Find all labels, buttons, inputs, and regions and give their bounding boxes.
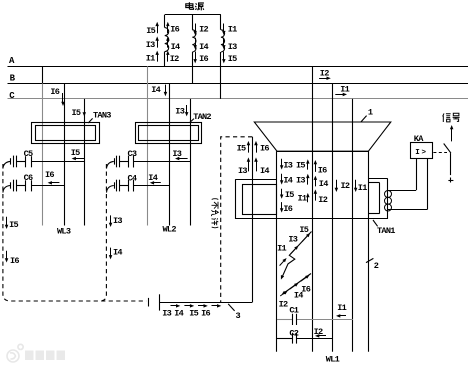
label XinHao (signal) char1 XIN [443,113,451,122]
svg-text:WL2: WL2 [163,224,177,234]
WL3 phase wire c (from bus C) [84,99,86,226]
svg-text:I6: I6 [201,309,210,319]
current arrow I6 down on WL3 wire b [62,93,64,103]
relay wire b (coil bottom to KA) [388,209,427,211]
circulating current arrows I3 I4 I5 I6 (right) [171,305,177,307]
tank col2 up arrows [307,163,309,170]
node 3 leader tick [228,304,234,311]
circulating wire from battery to point 3 [159,302,252,304]
svg-text:I2: I2 [279,300,288,310]
svg-text:TAN1: TAN1 [377,226,395,236]
zone arrow I3 down on WL2 dashed edge [110,215,112,223]
branch1 right current arrows up (I6 I4 I2) [167,25,169,33]
capacitor C1 wire (gray) [277,319,292,321]
dashed zone boundary WL3 (left edge + bottom) [3,164,146,301]
dashed actuation link from KA to contact [433,152,447,154]
svg-text:I2: I2 [170,54,179,64]
dashed zone boundary TAN1 (top edge and left edge) [221,137,253,303]
node 2 leader tick [366,258,373,262]
capacitor C2 plates [292,333,294,344]
bus A [8,66,468,68]
hook lead from dashed zone to C4 branch [107,186,114,193]
svg-text:I2: I2 [341,181,350,191]
WL3 phase wire a (from bus A) [42,66,44,83]
svg-text:I2: I2 [320,69,329,79]
svg-text:WL3: WL3 [57,226,71,236]
svg-text:I3: I3 [288,235,297,245]
coupling cell of C4 branch [114,182,116,188]
watermark logo (decorative) [7,344,23,362]
svg-text:I4: I4 [174,309,183,319]
svg-text:I5: I5 [299,225,308,235]
svg-text:I1: I1 [337,303,346,313]
capacitor C5 plates [25,156,27,167]
TAN1 side line down to WL1 (line 2) [368,219,370,352]
current arrow I3 down on WL2 wire c [186,105,188,113]
svg-text:I5: I5 [189,309,198,319]
tank col1 down arrows I3 I4 I5 I6 [281,159,283,166]
transformer 1 funnel (trapezoid) [254,122,390,151]
C6 wire [17,185,26,187]
current arrow I1 right (bus) [335,94,343,96]
svg-text:I5: I5 [9,220,18,230]
svg-text:I3: I3 [238,166,247,176]
transformer tank rectangle [276,151,278,219]
svg-text:1: 1 [368,107,373,117]
plus terminal [448,180,453,182]
capacitor C4 plates [128,180,130,192]
capacitor C6 plates [25,180,27,191]
svg-text:I6: I6 [10,256,19,266]
label DianYuan (power source) char1 DIAN [186,2,194,9]
battery cell (zone source) [148,298,150,307]
coupling cell of C3 branch [114,158,116,164]
hook lead from dashed zone to C5 branch [3,161,10,168]
WL2 phase wire a (from bus A, gray) [147,66,149,225]
branch3 current arrows down (I1 I3 I5) [223,24,225,32]
current arrow I1 left on C1 wire [340,315,347,317]
upper zigzag arrowheads up-right [302,235,308,241]
CT TAN2 inner frame [139,126,199,141]
label XinHao char2 HAO [453,113,460,121]
capacitor C2 wire [277,338,292,340]
CT TAN3 inner frame [36,126,96,141]
current arrow I5 left on C5 wire [75,158,84,160]
tank/CT common bottom line [236,218,388,220]
coupling cell of C5 branch (short+tall plates) [10,158,12,164]
svg-text:I3: I3 [296,175,305,185]
C3 wire [120,161,129,163]
WL3 phase wire b (from bus B) [64,83,66,225]
svg-text:I4: I4 [199,42,208,52]
TAN3 leader tick [88,118,92,123]
relay wire a (coil top to KA) [388,190,416,192]
svg-text:I1: I1 [340,84,349,94]
CT window right outer (TAN1) [368,178,387,180]
svg-text:I5: I5 [71,148,80,158]
conductor current arrows up row1 (I5 I6) [248,144,250,152]
CT TAN3 outer frame [32,123,100,144]
winding L2 on branch 2 [192,15,194,30]
relay KA box [411,143,433,159]
dashed zone boundary WL2 (edge rising from bottom) [100,164,106,301]
tank arrow I2 down on wire 2 [336,180,338,189]
svg-text:I3: I3 [175,106,184,116]
CT window right inner [368,182,379,184]
svg-text:I5: I5 [296,160,305,170]
power top wire [165,14,221,16]
CT TAN2 outer frame [136,123,202,144]
svg-text:3: 3 [236,311,241,321]
svg-text:I1: I1 [228,24,237,34]
label DianYuan char2 YUAN [195,3,204,10]
primary conductor through CT window down to battery wire [252,137,254,303]
capacitor C3 plates [128,156,130,168]
tank col3 up arrows [315,164,317,172]
svg-text:I5: I5 [146,26,155,36]
WL2 phase wire c (from bus C) [190,99,192,226]
winding L1 on branch 1 [164,15,166,28]
signal arrow up [451,129,453,142]
svg-text:I4: I4 [319,179,328,189]
wire 3 bus C to WL1 [352,99,354,352]
svg-text:I5: I5 [285,190,294,200]
TAN1 secondary winding coil [385,191,392,212]
svg-text:I1: I1 [146,54,155,64]
hook lead from dashed zone to C3 branch [107,161,114,168]
capacitor C1 plates [292,314,294,325]
C5 wire [17,161,26,163]
svg-text:I4: I4 [151,85,160,95]
node 1 leader tick [361,116,367,122]
svg-text:2: 2 [374,261,379,271]
bus B [8,83,468,85]
svg-text:I5: I5 [228,54,237,64]
svg-text:I2: I2 [199,24,208,34]
WL2 phase wire b (from bus B) [169,83,171,225]
branch1 left current arrows up (I5 I3 I1) [157,25,159,33]
CT window left inner [243,185,277,215]
svg-text:TAN3: TAN3 [93,110,111,120]
C4 wire [120,185,129,187]
TAN2 leader tick [190,119,194,123]
zone arrow I5 down on dashed edge [6,217,8,226]
hook lead from dashed zone to C6 branch [3,186,10,193]
TAN1 leader tick [373,220,378,226]
current arrow I5 down on WL3 wire c [84,104,86,114]
current arrow I2 right (bus) [319,78,327,80]
current arrow I4 left on C4 wire [153,182,161,184]
svg-text:I5: I5 [72,108,81,118]
lower zigzag arrowheads up-right [301,277,307,281]
svg-text:I2: I2 [318,195,327,205]
tank arrow I1 down on wire 3 [355,180,357,189]
upper zigzag fault-current arrow [282,232,311,277]
svg-text:I3: I3 [172,149,181,159]
svg-text:I6: I6 [170,25,179,35]
conductor current arrows up row2 (I3 I4) [248,161,250,172]
svg-text:I1: I1 [358,183,367,193]
watermark text (decorative) [25,351,65,361]
svg-text:I6: I6 [199,54,208,64]
svg-text:I3: I3 [162,309,171,319]
winding L3 on branch 3 [220,15,222,30]
svg-text:I6: I6 [45,170,54,180]
svg-text:I4: I4 [171,42,180,52]
vertical note (bu yun xu / not allowed), rotated [212,199,219,228]
svg-text:I: I [415,149,419,157]
svg-text:I4: I4 [113,248,122,258]
zone arrow I6 down on dashed edge [6,251,8,259]
tank left edge extension down to WL1 [276,219,278,352]
signal contact wire down [450,153,452,175]
svg-text:I5: I5 [237,143,246,153]
current arrow I4 down on WL2 wire b [165,85,167,93]
current arrow I6 left on C6 wire [51,182,59,184]
current arrow I2 left on C2 wire [319,335,327,337]
svg-text:I1: I1 [277,244,286,254]
svg-text:I4: I4 [283,175,292,185]
lower zigzag fault-current arrow [284,274,311,294]
bus C (gray) [8,98,468,100]
wire 2 bus B to WL1 [332,83,334,351]
branch2 current arrows down (I2 I4 I6) [195,24,197,32]
current arrow I3 left on C3 wire [179,158,188,160]
svg-text:I3: I3 [228,42,237,52]
svg-text:I3: I3 [113,216,122,226]
svg-text:C2: C2 [289,329,298,339]
svg-text:TAN2: TAN2 [193,112,211,122]
svg-text:I6: I6 [50,87,59,97]
svg-text:I6: I6 [318,166,327,176]
svg-text:I3: I3 [283,160,292,170]
svg-text:C1: C1 [289,305,298,315]
zone arrow I4 down on WL2 dashed edge [110,248,112,256]
svg-text:I6: I6 [260,143,269,153]
signal contact blade [444,144,451,154]
svg-text:I6: I6 [283,204,292,214]
svg-text:WL1: WL1 [326,354,340,364]
wire 1 bus A to WL1 [312,66,314,352]
coupling cell of C6 branch [10,182,12,188]
svg-text:I1: I1 [298,193,307,203]
svg-text:I4: I4 [294,291,303,301]
CT window left outer [236,179,277,181]
svg-text:I3: I3 [146,40,155,50]
svg-text:I4: I4 [260,166,269,176]
